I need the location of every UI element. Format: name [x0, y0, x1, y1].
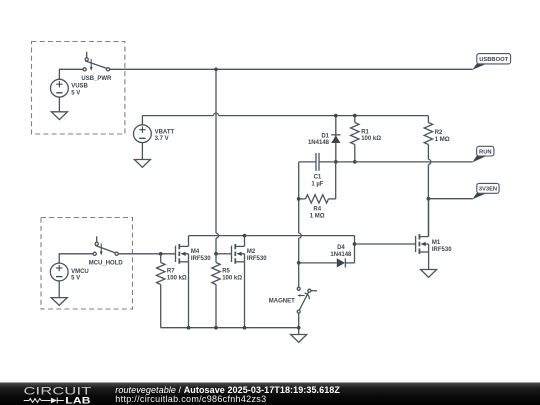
label C1 1 uF: [311, 175, 323, 188]
wire M2 drain up: [244, 236, 246, 247]
ground (VUSB): [51, 112, 67, 120]
svg-text:R4: R4: [313, 207, 321, 213]
junction M1 gate tap: [353, 242, 357, 246]
wire M2 source down: [244, 262, 246, 328]
svg-text:RUN: RUN: [479, 149, 492, 155]
wire vertical USB net down to M2 gate node: [216, 69, 219, 254]
ground (MAGNET): [291, 335, 307, 343]
junction R7 tap: [159, 252, 163, 256]
svg-text:3.7 V: 3.7 V: [155, 136, 169, 142]
voltage source VMCU: [50, 263, 68, 281]
switch USB_PWR: [83, 52, 110, 71]
wire M4 source down: [188, 262, 190, 328]
label R1 100 kOhm: [361, 129, 381, 142]
label MAGNET: [269, 298, 295, 304]
svg-text:C1: C1: [314, 175, 322, 181]
wire R2 to 3V3EN node: [427, 164, 429, 198]
label M4 IRF530: [191, 249, 211, 262]
wire VMCU bottom: [58, 281, 60, 298]
label VMCU 5 V: [71, 269, 89, 282]
ground (VBATT): [134, 160, 150, 168]
diode D4 1N4148: [337, 258, 355, 267]
label M2 IRF530: [247, 249, 267, 262]
footer bar: [0, 383, 540, 405]
svg-text:VBATT: VBATT: [155, 129, 175, 135]
svg-text:R1: R1: [361, 129, 369, 135]
junction bottom R5: [214, 326, 218, 330]
junction D1 bottom: [334, 160, 338, 164]
wire RUN rail right of C1: [319, 161, 473, 163]
wire D4 node down to MAGNET: [298, 263, 300, 287]
junction R4 left: [297, 197, 301, 201]
svg-text:MAGNET: MAGNET: [269, 298, 295, 304]
switch MAGNET: [297, 287, 317, 313]
dashed enclosure box (MCU hold section): [41, 218, 133, 310]
wire M1 source down: [428, 252, 430, 270]
wire MCU_HOLD to M4 gate: [118, 253, 175, 255]
svg-text:USB_PWR: USB_PWR: [81, 76, 112, 82]
svg-text:R7: R7: [167, 269, 175, 275]
svg-text:M2: M2: [247, 249, 256, 255]
wire 3V3EN: [428, 198, 472, 200]
junction R1 bottom: [353, 160, 357, 164]
ground (VMCU): [51, 298, 67, 306]
wire bottom rail: [161, 327, 299, 329]
wire R4 right up to RUN rail: [335, 162, 337, 199]
resistor R4: [299, 195, 336, 203]
svg-text:1 MΩ: 1 MΩ: [310, 213, 325, 219]
capacitor C1: [316, 153, 319, 171]
svg-text:MCU_HOLD: MCU_HOLD: [89, 260, 124, 266]
wire VUSB top to switch: [59, 69, 83, 79]
svg-text:M1: M1: [432, 240, 441, 246]
wire M2 gate: [216, 253, 232, 255]
label VBATT 3.7 V: [155, 129, 175, 142]
wire VUSB bottom: [58, 97, 60, 112]
wire M1 gate: [355, 243, 416, 245]
label R5 100 kOhm: [222, 269, 242, 282]
junction R1 top: [353, 114, 357, 118]
svg-text:1 µF: 1 µF: [311, 182, 323, 188]
svg-text:R5: R5: [222, 269, 230, 275]
resistor R7: [157, 254, 165, 328]
junction D1 top: [334, 114, 338, 118]
resistor R1: [351, 116, 359, 162]
svg-text:LAB: LAB: [65, 395, 91, 405]
svg-text:100 kΩ: 100 kΩ: [222, 276, 242, 282]
diode D1 1N4148: [331, 116, 340, 162]
wire RUN rail left of C1: [299, 161, 316, 163]
transistor M2 IRF530: [232, 244, 245, 264]
svg-text:IRF530: IRF530: [247, 256, 267, 262]
svg-text:VMCU: VMCU: [71, 269, 89, 275]
transistor M1 IRF530: [416, 234, 429, 254]
junction 3V3EN node: [427, 197, 431, 201]
junction bottom M4: [187, 326, 191, 330]
dashed enclosure box (USB power section): [32, 42, 125, 135]
label USB_PWR: [81, 76, 112, 82]
wire R2 hop over RUN rail: [428, 159, 431, 164]
flag 3V3EN: [472, 183, 499, 199]
wire MAGNET bottom: [298, 313, 300, 334]
svg-text:5 V: 5 V: [71, 90, 80, 96]
wire 3V3EN node to M1 drain: [427, 199, 429, 237]
label VUSB 5 V: [71, 84, 88, 97]
label R2 1 MOhm: [435, 130, 450, 143]
junction MAGNET/ground: [297, 326, 301, 330]
svg-text:R2: R2: [435, 130, 443, 136]
wire corner down to D4 cathode: [354, 236, 356, 263]
svg-text:IRF530: IRF530: [432, 247, 452, 253]
svg-text:1 MΩ: 1 MΩ: [435, 137, 450, 143]
junction top rail / vertical: [214, 67, 218, 71]
svg-text:100 kΩ: 100 kΩ: [167, 276, 187, 282]
CircuitLab logo schematic underline (resistor + diode): [24, 398, 64, 404]
flag USBBOOT: [472, 54, 510, 70]
svg-text:D1: D1: [321, 134, 329, 140]
svg-text:VUSB: VUSB: [71, 84, 88, 90]
svg-text:1N4148: 1N4148: [308, 140, 330, 146]
svg-text:M4: M4: [191, 249, 200, 255]
switch MCU_HOLD: [93, 236, 118, 255]
label R4 1 MOhm: [310, 207, 325, 220]
junction M2 gate tap: [214, 252, 218, 256]
label D1 1N4148: [308, 134, 330, 146]
svg-text:5 V: 5 V: [71, 276, 80, 282]
svg-text:USBBOOT: USBBOOT: [479, 57, 508, 63]
svg-text:IRF530: IRF530: [191, 256, 211, 262]
voltage source VUSB: [51, 79, 69, 97]
svg-text:3V3EN: 3V3EN: [479, 187, 497, 193]
wire M1 drain up: [428, 199, 430, 237]
transistor M4 IRF530: [176, 244, 189, 264]
junction bottom M2: [243, 326, 247, 330]
ground (M1): [421, 270, 437, 278]
wire top rail (USB_PWR to USBBOOT): [110, 68, 473, 70]
label MCU_HOLD: [89, 260, 124, 266]
junction D4 anode node: [297, 261, 301, 265]
wire mid rail (M4 drain to corner): [189, 235, 355, 237]
resistor R2: [424, 116, 432, 160]
wire left column (RUN node down to D4 node): [299, 162, 302, 263]
junction M2 drain: [243, 234, 247, 238]
svg-text:D4: D4: [337, 245, 345, 251]
wire VBATT top: [141, 116, 143, 125]
wire M4 drain up: [188, 236, 190, 247]
label M1 IRF530: [432, 240, 452, 253]
label R7 100 kOhm: [167, 269, 187, 282]
svg-text:100 kΩ: 100 kΩ: [361, 136, 381, 142]
svg-text:http://circuitlab.com/c986cfnh: http://circuitlab.com/c986cfnh42zs3: [115, 394, 266, 404]
wire D4 anode lead: [299, 262, 337, 264]
label D4 1N4148: [330, 245, 352, 258]
wire VBATT bottom: [141, 143, 143, 160]
wire VMCU top to switch: [59, 254, 93, 263]
svg-text:1N4148: 1N4148: [330, 252, 352, 258]
resistor R5: [212, 254, 220, 328]
voltage source VBATT: [134, 125, 152, 143]
flag RUN: [472, 146, 494, 162]
wire VBATT rail with hop: [142, 113, 428, 115]
